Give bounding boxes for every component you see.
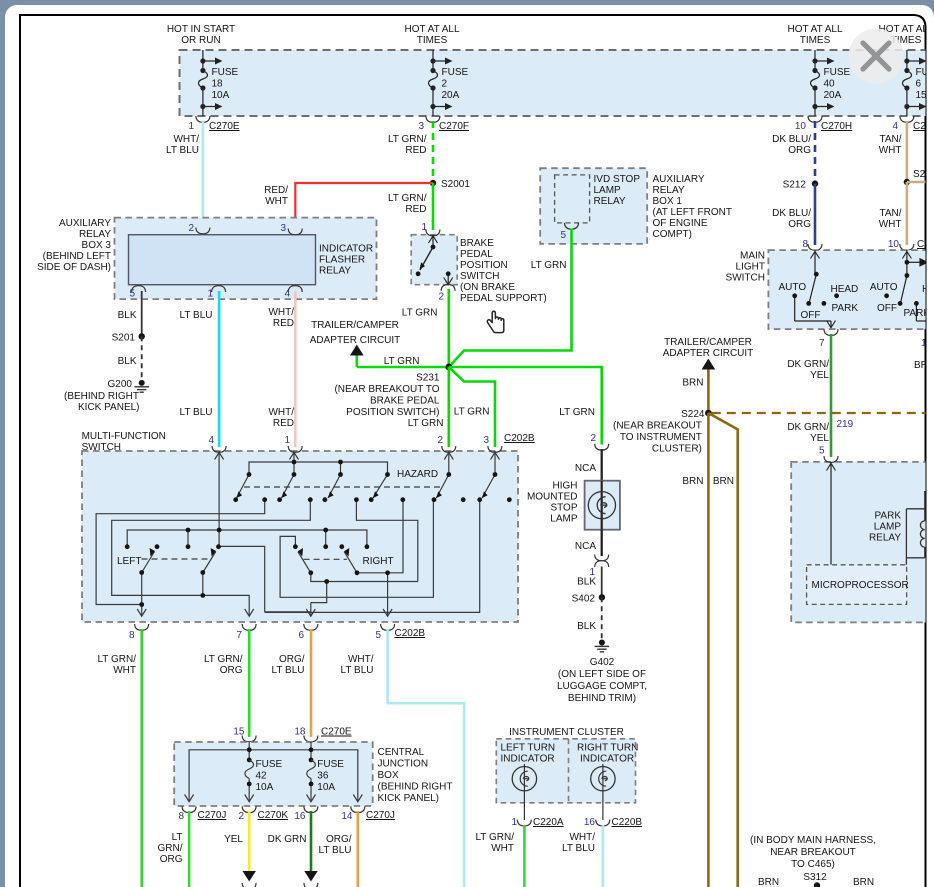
svg-text:AUXILIARY: AUXILIARY bbox=[59, 218, 111, 229]
svg-text:FUSE: FUSE bbox=[212, 67, 239, 78]
svg-text:HEAD: HEAD bbox=[831, 284, 859, 295]
svg-text:LAMP: LAMP bbox=[874, 522, 902, 533]
svg-text:LEFT TURN: LEFT TURN bbox=[501, 743, 556, 754]
svg-text:SWITCH: SWITCH bbox=[82, 442, 121, 453]
svg-text:(NEAR BREAKOUT TO: (NEAR BREAKOUT TO bbox=[334, 384, 439, 395]
wire BRN S224 diagonal right branch bbox=[708, 413, 737, 887]
MFS pin 1 connector bbox=[284, 435, 302, 452]
svg-text:OF ENGINE: OF ENGINE bbox=[653, 218, 708, 229]
wire LT GRN/ORG CJB pin 8 down bbox=[158, 811, 190, 887]
svg-text:LT GRN: LT GRN bbox=[384, 356, 420, 367]
fuse 40 20A column bbox=[811, 50, 829, 116]
svg-text:2: 2 bbox=[188, 223, 194, 234]
power feed box bbox=[180, 50, 934, 116]
svg-text:HOT IN START: HOT IN START bbox=[167, 24, 235, 35]
svg-text:2: 2 bbox=[238, 811, 244, 822]
svg-text:S224: S224 bbox=[681, 409, 705, 420]
node S224 bbox=[613, 409, 712, 455]
aux relay box 1 (dashed) bbox=[540, 168, 647, 244]
node S208 bbox=[904, 169, 934, 185]
svg-text:5: 5 bbox=[129, 289, 135, 300]
CJB box bbox=[174, 742, 373, 806]
trailer/camper adapter arrow (right) bbox=[663, 337, 754, 370]
hazard blades bbox=[237, 475, 250, 499]
brake switch internals bbox=[416, 235, 453, 285]
node S402 bbox=[572, 594, 605, 605]
svg-text:ADAPTER CIRCUIT: ADAPTER CIRCUIT bbox=[663, 348, 754, 359]
svg-text:(AT LEFT FRONT: (AT LEFT FRONT bbox=[653, 207, 732, 218]
fuse 36 10A bbox=[307, 747, 345, 801]
H530 contact bus bbox=[127, 530, 367, 546]
svg-text:7: 7 bbox=[236, 630, 242, 641]
svg-text:BEHIND TRIM): BEHIND TRIM) bbox=[568, 693, 636, 704]
svg-text:WHT: WHT bbox=[879, 145, 902, 156]
svg-text:BOX: BOX bbox=[378, 770, 399, 781]
svg-text:AUTO: AUTO bbox=[870, 282, 898, 293]
park lamp relay coil bbox=[906, 491, 924, 565]
svg-text:6: 6 bbox=[916, 79, 922, 90]
svg-text:YEL: YEL bbox=[810, 370, 829, 381]
svg-text:ORG/: ORG/ bbox=[279, 654, 305, 665]
wire DK GRN CJB pin 16 down with arrow bbox=[268, 811, 318, 887]
svg-text:(IN BODY MAIN HARNESS,: (IN BODY MAIN HARNESS, bbox=[750, 835, 876, 846]
label park lamp relay bbox=[869, 511, 901, 544]
wire LT GRN brake pin2 to S231 bbox=[402, 289, 449, 367]
LEFT dashed bar bbox=[142, 558, 208, 560]
inline connector pin 1 bbox=[589, 555, 608, 579]
svg-text:2: 2 bbox=[442, 79, 448, 90]
MLS pin 7 connector bbox=[819, 329, 838, 349]
fuse 42 10A bbox=[245, 747, 283, 801]
wire BRN S224 down left branch bbox=[682, 413, 708, 887]
ground G200 bbox=[64, 379, 149, 413]
svg-text:WHT: WHT bbox=[265, 196, 288, 207]
MFS pin 4 connector bbox=[208, 435, 226, 452]
svg-text:4: 4 bbox=[892, 121, 898, 132]
svg-text:TRAILER/CAMPER: TRAILER/CAMPER bbox=[311, 320, 399, 331]
svg-text:(BEHIND RIGHT: (BEHIND RIGHT bbox=[64, 391, 139, 402]
svg-text:BRN: BRN bbox=[853, 877, 874, 887]
MLS pin 10 connector bbox=[888, 239, 930, 250]
MFS pin 6 connector bbox=[298, 624, 317, 641]
wire LT GRN S231 to MFS pin 3 bbox=[449, 367, 495, 447]
svg-text:S402: S402 bbox=[572, 594, 596, 605]
MFS pin 2 connector bbox=[437, 435, 455, 452]
svg-text:2: 2 bbox=[590, 433, 596, 444]
wire DK BLU/ORG dashed C270H to S212 bbox=[772, 121, 815, 184]
svg-text:DK GRN/: DK GRN/ bbox=[787, 359, 829, 370]
ground G402 bbox=[557, 640, 647, 705]
svg-text:42: 42 bbox=[256, 771, 268, 782]
svg-text:MULTI-FUNCTION: MULTI-FUNCTION bbox=[82, 431, 166, 442]
svg-text:DK BLU/: DK BLU/ bbox=[772, 134, 811, 145]
svg-text:OFF: OFF bbox=[801, 310, 821, 321]
svg-text:YEL: YEL bbox=[224, 834, 243, 845]
svg-text:LT GRN: LT GRN bbox=[531, 260, 567, 271]
node S201 bbox=[112, 333, 145, 344]
svg-text:2: 2 bbox=[437, 435, 443, 446]
svg-text:219: 219 bbox=[837, 419, 854, 430]
label HOT IN START OR RUN bbox=[167, 24, 235, 46]
svg-text:LT GRN: LT GRN bbox=[559, 407, 595, 418]
svg-text:8: 8 bbox=[802, 239, 808, 250]
svg-text:10: 10 bbox=[795, 121, 807, 132]
svg-text:5: 5 bbox=[819, 446, 825, 457]
svg-text:LT BLU: LT BLU bbox=[180, 310, 213, 321]
svg-text:C270K: C270K bbox=[258, 810, 289, 821]
svg-text:PARK: PARK bbox=[875, 511, 902, 522]
svg-text:BRAKE: BRAKE bbox=[460, 238, 494, 249]
svg-text:HOT AT ALL: HOT AT ALL bbox=[404, 24, 459, 35]
svg-text:LUGGAGE COMPT,: LUGGAGE COMPT, bbox=[557, 681, 647, 692]
connector 4 C270G bbox=[892, 116, 934, 132]
svg-text:C270E: C270E bbox=[321, 727, 352, 738]
MFS interior dots bbox=[125, 460, 512, 607]
IVD pin 5 connector bbox=[560, 223, 578, 241]
svg-text:RELAY: RELAY bbox=[319, 266, 351, 277]
svg-text:1: 1 bbox=[207, 289, 213, 300]
wire LT GRN/WHT MFS pin 8 down bbox=[97, 629, 141, 887]
MFS pin 7 connector bbox=[236, 624, 256, 641]
node S2001 bbox=[430, 179, 471, 190]
svg-text:WHT: WHT bbox=[879, 219, 902, 230]
CJB pin 14 connector C270J bbox=[341, 806, 395, 822]
wire LT GRN/WHT IC pin 1 down bbox=[475, 825, 524, 887]
svg-text:G200: G200 bbox=[108, 379, 133, 390]
svg-text:16: 16 bbox=[584, 817, 596, 828]
label auxiliary relay box 3 bbox=[37, 218, 111, 273]
svg-text:RIGHT: RIGHT bbox=[363, 556, 394, 567]
svg-text:RED: RED bbox=[273, 318, 294, 329]
svg-text:RELAY: RELAY bbox=[869, 533, 901, 544]
MFS interior labels bbox=[117, 469, 438, 567]
svg-text:WHT/: WHT/ bbox=[173, 134, 199, 145]
brake switch pin 1 connector bbox=[421, 222, 439, 236]
svg-text:RELAY: RELAY bbox=[653, 185, 685, 196]
wire BRN dashed S224 to right edge bbox=[712, 412, 926, 414]
MFS blade arrowheads bbox=[150, 491, 488, 556]
svg-text:IVD STOP: IVD STOP bbox=[594, 174, 641, 185]
svg-text:FUSE: FUSE bbox=[256, 759, 283, 770]
MFS interior wires bbox=[96, 451, 499, 616]
svg-text:NCA: NCA bbox=[575, 541, 596, 552]
fuse 2 20A column bbox=[429, 50, 447, 116]
bottom arrows bbox=[137, 609, 146, 616]
pin4 vertical bbox=[218, 451, 220, 546]
hazard dashed bar bbox=[244, 486, 442, 488]
node S231 bbox=[334, 364, 452, 418]
CJB pin 16 connector bbox=[294, 806, 318, 822]
svg-text:SIDE OF DASH): SIDE OF DASH) bbox=[37, 262, 111, 273]
connector 1 C270E at fuse box bbox=[188, 116, 239, 132]
svg-text:MAIN: MAIN bbox=[740, 251, 765, 262]
svg-text:MICROPROCESSOR: MICROPROCESSOR bbox=[812, 580, 909, 591]
svg-text:INDICATOR: INDICATOR bbox=[580, 754, 634, 765]
svg-text:(NEAR BREAKOUT: (NEAR BREAKOUT bbox=[613, 421, 702, 432]
CJB pin 15 connector bbox=[233, 727, 256, 742]
svg-text:8: 8 bbox=[178, 811, 184, 822]
svg-text:HAZARD: HAZARD bbox=[397, 469, 438, 480]
svg-text:LT GRN/: LT GRN/ bbox=[97, 654, 136, 665]
svg-text:FUSE: FUSE bbox=[317, 759, 344, 770]
lamp pin 2 connector bbox=[590, 433, 608, 450]
cursor hand icon bbox=[487, 311, 504, 332]
svg-text:KICK PANEL): KICK PANEL) bbox=[78, 402, 140, 413]
label HOT AT ALL TIMES (fuse 40) bbox=[787, 24, 842, 46]
relay pin 2 connector bbox=[188, 223, 209, 234]
svg-text:WHT/: WHT/ bbox=[348, 654, 374, 665]
svg-text:BRN: BRN bbox=[914, 360, 934, 371]
svg-text:NCA: NCA bbox=[575, 463, 596, 474]
microprocessor box bbox=[807, 565, 909, 605]
RIGHT dashed bar bbox=[304, 558, 347, 560]
svg-text:WHT/: WHT/ bbox=[569, 832, 595, 843]
svg-text:LT GRN: LT GRN bbox=[408, 418, 444, 429]
svg-text:2: 2 bbox=[438, 292, 444, 303]
svg-text:5: 5 bbox=[560, 230, 566, 241]
svg-text:KICK PANEL): KICK PANEL) bbox=[378, 793, 440, 804]
svg-text:10A: 10A bbox=[212, 90, 230, 101]
svg-text:ORG/: ORG/ bbox=[326, 834, 352, 845]
label HOT AT ALL TIMES (fuse 2) bbox=[404, 24, 459, 46]
fuse 18 10A column bbox=[198, 50, 216, 116]
svg-text:ORG: ORG bbox=[220, 665, 243, 676]
label main light switch bbox=[726, 251, 765, 284]
pin3 vertical bbox=[494, 451, 496, 475]
svg-text:18: 18 bbox=[294, 727, 306, 738]
svg-text:MOUNTED: MOUNTED bbox=[527, 492, 578, 503]
svg-text:YEL: YEL bbox=[810, 433, 829, 444]
svg-text:TIMES: TIMES bbox=[417, 35, 448, 46]
label brake pedal position switch bbox=[460, 238, 547, 304]
svg-text:(ON BRAKE: (ON BRAKE bbox=[460, 282, 515, 293]
svg-text:NEAR BREAKOUT: NEAR BREAKOUT bbox=[770, 847, 856, 858]
svg-text:36: 36 bbox=[317, 771, 329, 782]
svg-text:LT GRN/: LT GRN/ bbox=[204, 654, 243, 665]
svg-text:RELAY: RELAY bbox=[79, 229, 111, 240]
svg-text:C270J: C270J bbox=[366, 810, 395, 821]
connector 3 C270F bbox=[418, 116, 469, 132]
svg-text:10A: 10A bbox=[317, 782, 335, 793]
pin 7 path bbox=[112, 500, 311, 616]
svg-text:LT BLU: LT BLU bbox=[341, 665, 374, 676]
relay pin 5 connector bbox=[129, 286, 145, 300]
relay pin 1 connector bbox=[207, 286, 225, 300]
right blade B to pin 5 and dot402 bbox=[357, 500, 403, 573]
svg-text:GRN/: GRN/ bbox=[158, 843, 183, 854]
wire LT GRN/RED S2001 to brake switch pin 1 bbox=[388, 183, 433, 230]
svg-text:(ON LEFT SIDE OF: (ON LEFT SIDE OF bbox=[558, 669, 646, 680]
svg-text:LT BLU: LT BLU bbox=[180, 407, 213, 418]
svg-text:10: 10 bbox=[888, 239, 900, 250]
svg-text:OR RUN: OR RUN bbox=[181, 35, 220, 46]
wire WHT/LT BLU MFS pin 5 elbow path bbox=[341, 629, 465, 887]
CJB pin 18 connector C270E bbox=[294, 727, 352, 742]
high mounted stop lamp bbox=[527, 481, 620, 530]
svg-text:PEDAL SUPPORT): PEDAL SUPPORT) bbox=[460, 293, 547, 304]
svg-text:S231: S231 bbox=[416, 373, 440, 384]
wire LT BLU pin1 to MFS pin 4 bbox=[180, 291, 220, 447]
svg-text:RELAY: RELAY bbox=[594, 196, 626, 207]
svg-text:(BEHIND RIGHT: (BEHIND RIGHT bbox=[378, 782, 453, 793]
relay pin 3 connector bbox=[280, 223, 302, 235]
svg-text:C270J: C270J bbox=[198, 810, 227, 821]
label HOT AT ALL TIMES (fuse 6) bbox=[878, 24, 933, 46]
svg-text:RED/: RED/ bbox=[264, 185, 288, 196]
IVD relay inner dashed box bbox=[555, 174, 641, 223]
svg-text:C270F: C270F bbox=[439, 121, 469, 132]
svg-text:BRN: BRN bbox=[682, 476, 703, 487]
svg-text:BRN: BRN bbox=[713, 476, 734, 487]
svg-text:INDICATOR: INDICATOR bbox=[319, 244, 373, 255]
right pivot to pin 6 jog bbox=[311, 573, 418, 582]
svg-text:DK BLU/: DK BLU/ bbox=[772, 208, 811, 219]
blade-low 480 path bbox=[265, 500, 480, 612]
svg-text:S201: S201 bbox=[112, 333, 136, 344]
wire WHT/LT BLU IC pin 16 down bbox=[562, 825, 603, 887]
svg-text:S312: S312 bbox=[803, 872, 827, 883]
svg-text:FLASHER: FLASHER bbox=[319, 255, 365, 266]
pin2 vertical bbox=[448, 451, 450, 475]
wire NCA below lamp bbox=[575, 530, 602, 556]
brake switch box bbox=[411, 235, 457, 285]
wire WHT/RED pin4 to MFS pin 1 bbox=[268, 291, 295, 447]
svg-text:BLK: BLK bbox=[577, 577, 596, 588]
svg-text:TRAILER/CAMPER: TRAILER/CAMPER bbox=[664, 337, 752, 348]
svg-text:C270H: C270H bbox=[821, 121, 852, 132]
svg-text:15: 15 bbox=[233, 727, 245, 738]
svg-text:HIGH: HIGH bbox=[553, 481, 578, 492]
svg-text:BLK: BLK bbox=[577, 621, 596, 632]
wire DK GRN/YEL MLS pin7 to park lamp relay bbox=[787, 334, 853, 457]
MFS pin 8 connector bbox=[129, 624, 149, 641]
svg-text:FUSE: FUSE bbox=[916, 67, 934, 78]
svg-text:ADAPTER CIRCUIT: ADAPTER CIRCUIT bbox=[310, 335, 401, 346]
right turn indicator bbox=[577, 743, 638, 821]
wire ORG/LT BLU CJB pin 14 down bbox=[319, 811, 358, 887]
CJB internal bus bbox=[185, 742, 363, 802]
svg-text:DK GRN/: DK GRN/ bbox=[787, 422, 829, 433]
svg-text:4: 4 bbox=[284, 289, 290, 300]
svg-text:G402: G402 bbox=[590, 657, 615, 668]
left turn indicator bbox=[501, 743, 556, 821]
MLS section 1 internals bbox=[795, 250, 836, 328]
svg-text:1: 1 bbox=[188, 121, 194, 132]
svg-text:WHT: WHT bbox=[113, 665, 136, 676]
IC pin 1 connector C220A bbox=[511, 817, 563, 828]
svg-text:LT GRN: LT GRN bbox=[454, 407, 490, 418]
svg-text:BRN: BRN bbox=[682, 378, 703, 389]
wire BLK dashed S402 to G402 bbox=[577, 597, 602, 640]
svg-text:RED: RED bbox=[405, 145, 426, 156]
svg-text:HEAD: HEAD bbox=[922, 284, 934, 295]
svg-text:5: 5 bbox=[375, 630, 381, 641]
svg-text:WHT: WHT bbox=[491, 843, 514, 854]
MFS pin 5 connector C202B bbox=[375, 624, 425, 641]
svg-text:S2001: S2001 bbox=[441, 179, 470, 190]
svg-text:RIGHT TURN: RIGHT TURN bbox=[577, 743, 638, 754]
wire BLK pin5 to S201 bbox=[118, 291, 142, 336]
svg-text:3: 3 bbox=[483, 435, 489, 446]
wire LT GRN/RED dashed C270F to S2001 bbox=[388, 121, 433, 183]
auxiliary relay box 3 (dashed) bbox=[115, 218, 377, 300]
svg-text:S208: S208 bbox=[913, 169, 934, 180]
svg-text:15A: 15A bbox=[916, 90, 934, 101]
svg-text:ORG: ORG bbox=[788, 219, 811, 230]
fuse 6 15A column bbox=[902, 50, 920, 116]
svg-text:STOP: STOP bbox=[550, 503, 577, 514]
wire DK BLU/ORG S212 to MLS pin 8 bbox=[772, 184, 815, 245]
svg-text:3: 3 bbox=[280, 223, 286, 234]
svg-text:7: 7 bbox=[819, 338, 825, 349]
svg-text:RED: RED bbox=[273, 418, 294, 429]
svg-text:1: 1 bbox=[284, 435, 290, 446]
svg-text:C270E: C270E bbox=[209, 121, 240, 132]
svg-text:C270G: C270G bbox=[913, 121, 934, 132]
svg-text:SWITCH: SWITCH bbox=[726, 273, 765, 284]
label body main harness S312 bbox=[750, 835, 876, 887]
svg-text:LT: LT bbox=[172, 832, 183, 843]
wire TAN/WHT S208 to MLS pin 10 bbox=[879, 182, 907, 245]
svg-text:LIGHT: LIGHT bbox=[736, 262, 765, 273]
wire TAN/WHT C270G to S208 bbox=[879, 121, 907, 182]
pin 8 path bbox=[96, 500, 265, 605]
svg-text:LT BLU: LT BLU bbox=[319, 845, 352, 856]
svg-text:TO C465): TO C465) bbox=[791, 859, 835, 870]
MLS pin 1 connector (clipped) bbox=[914, 338, 934, 371]
label auxiliary relay box 1 bbox=[653, 174, 732, 240]
wire ORG/LT BLU MFS pin 6 to CJB pin 18 bbox=[272, 629, 311, 737]
svg-text:BOX 1: BOX 1 bbox=[653, 196, 683, 207]
node S212 bbox=[783, 180, 819, 191]
svg-text:LAMP: LAMP bbox=[594, 185, 622, 196]
svg-text:BRN: BRN bbox=[758, 877, 779, 887]
svg-text:SWITCH: SWITCH bbox=[460, 271, 499, 282]
svg-text:C220B: C220B bbox=[612, 817, 643, 828]
svg-text:OFF: OFF bbox=[877, 303, 897, 314]
svg-text:LT GRN/: LT GRN/ bbox=[475, 832, 514, 843]
wire NCA to lamp bbox=[575, 449, 602, 481]
svg-text:1: 1 bbox=[421, 222, 427, 233]
svg-text:TIMES: TIMES bbox=[800, 35, 831, 46]
svg-text:3: 3 bbox=[418, 121, 424, 132]
svg-text:4: 4 bbox=[208, 435, 214, 446]
svg-text:AUTO: AUTO bbox=[779, 282, 807, 293]
svg-text:20A: 20A bbox=[824, 90, 842, 101]
svg-text:ORG: ORG bbox=[160, 854, 183, 865]
CJB pin 8 connector C270J bbox=[178, 806, 226, 822]
svg-text:TAN/: TAN/ bbox=[879, 208, 901, 219]
wire BRN arrow to S224 bbox=[682, 370, 708, 414]
MFS pin 3 connector C202B bbox=[483, 433, 534, 452]
svg-text:POSITION SWITCH): POSITION SWITCH) bbox=[346, 407, 439, 418]
IC pin 16 connector C220B bbox=[584, 817, 643, 828]
wire WHT/LT BLU C270E to relay pin 2 bbox=[166, 121, 203, 228]
svg-text:RED: RED bbox=[405, 204, 426, 215]
park lamp relay pin 5 connector bbox=[819, 446, 838, 463]
svg-text:LT GRN: LT GRN bbox=[402, 308, 438, 319]
svg-text:1: 1 bbox=[511, 817, 517, 828]
svg-text:INDICATOR: INDICATOR bbox=[501, 754, 555, 765]
CJB pin 2 connector C270K bbox=[238, 806, 288, 822]
wire LT GRN S231 to MFS pin 2 bbox=[408, 367, 449, 447]
svg-text:LT GRN/: LT GRN/ bbox=[388, 193, 427, 204]
pin1 vertical and top bus bbox=[293, 451, 295, 462]
connector 10 C270H bbox=[795, 116, 852, 132]
svg-text:40: 40 bbox=[824, 79, 836, 90]
svg-text:DK GRN: DK GRN bbox=[268, 834, 307, 845]
svg-text:20A: 20A bbox=[442, 90, 460, 101]
